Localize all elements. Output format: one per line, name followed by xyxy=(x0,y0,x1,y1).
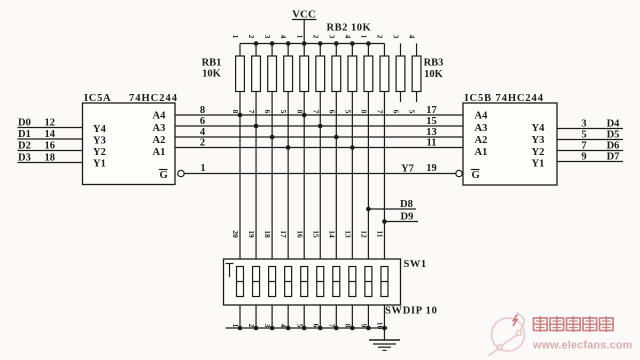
svg-text:1: 1 xyxy=(295,35,304,39)
node junction col3 row3 xyxy=(270,135,275,140)
svg-text:16: 16 xyxy=(295,230,304,238)
svg-text:3: 3 xyxy=(392,35,401,39)
pin labels Y4 Y3 Y2 Y1 (IC5B) xyxy=(532,123,546,170)
svg-text:18: 18 xyxy=(45,153,56,164)
svg-text:7: 7 xyxy=(311,110,320,114)
resistor RB2 element 3 (pin 3/6) xyxy=(327,35,340,114)
svg-text:17: 17 xyxy=(279,230,288,238)
svg-text:12: 12 xyxy=(45,118,56,129)
pin labels A4 A3 A2 A1 (IC5A) xyxy=(153,111,167,159)
node junction col4 row4 xyxy=(286,145,291,150)
svg-text:www.elecfans.com: www.elecfans.com xyxy=(532,340,632,352)
node top bus junction col2 xyxy=(254,41,259,46)
svg-text:7: 7 xyxy=(376,110,385,114)
wire column 1 vertical xyxy=(239,92,241,329)
svg-text:RB1: RB1 xyxy=(202,58,222,69)
ground xyxy=(369,340,400,350)
resistor RB2 element 2 (pin 2/7) xyxy=(311,35,324,114)
svg-text:17: 17 xyxy=(426,105,437,116)
svg-text:D6: D6 xyxy=(607,141,620,152)
label IC5B 74HC244 xyxy=(465,93,544,104)
node top bus junction col9 xyxy=(366,41,371,46)
node bottom bus junction col4 xyxy=(286,326,291,331)
svg-text:SW1: SW1 xyxy=(404,259,427,270)
wire column 2 vertical xyxy=(255,92,257,329)
svg-text:1: 1 xyxy=(200,163,205,174)
svg-text:4: 4 xyxy=(279,35,288,39)
svg-text:A4: A4 xyxy=(153,111,167,122)
wire column 9 vertical xyxy=(367,92,369,329)
switch SW1 element 10 xyxy=(381,267,388,297)
wire VCC top bus xyxy=(240,43,384,45)
svg-text:18: 18 xyxy=(263,230,272,238)
wire enable net (pin 1 to Y7 pin 19) xyxy=(184,163,456,175)
enable pin G-bar (IC5A) xyxy=(159,170,168,182)
wire column 7 vertical xyxy=(335,92,337,329)
svg-text:15: 15 xyxy=(311,230,320,238)
svg-text:IC5A: IC5A xyxy=(84,93,111,104)
node junction col5 row1 xyxy=(302,113,307,118)
svg-text:RB2 10K: RB2 10K xyxy=(327,23,372,34)
node bottom bus junction col2 xyxy=(254,326,259,331)
svg-text:4: 4 xyxy=(408,35,417,39)
resistor RB2 element 1 (pin 1/8) xyxy=(295,35,308,114)
wire IC5B pin 9 to D7 xyxy=(557,152,623,163)
switch SW1 element 5 xyxy=(301,267,308,297)
svg-text:A2: A2 xyxy=(153,135,166,146)
svg-text:2: 2 xyxy=(247,35,256,39)
resistor RB3 element 2 (pin 2/7) xyxy=(376,35,389,114)
resistor RB1 element 4 (pin 4/5) xyxy=(279,35,292,114)
wire D9 tap xyxy=(382,212,418,224)
svg-text:5: 5 xyxy=(408,110,417,114)
svg-text:A2: A2 xyxy=(475,135,488,146)
svg-text:G: G xyxy=(160,170,168,181)
svg-text:8: 8 xyxy=(295,110,304,114)
wire column 4 vertical xyxy=(287,92,289,329)
svg-text:6: 6 xyxy=(200,116,205,127)
svg-text:A4: A4 xyxy=(475,111,489,122)
svg-text:IC5B 74HC244: IC5B 74HC244 xyxy=(465,93,544,104)
wire IC5B pin 3 to D4 xyxy=(557,119,623,130)
switch SW1 element 4 xyxy=(285,267,292,297)
resistor RB1 element 3 (pin 3/6) xyxy=(263,35,276,114)
wire IC5B pin 5 to D5 xyxy=(557,130,623,141)
svg-text:10K: 10K xyxy=(424,69,444,80)
pin labels A4 A3 A2 A1 (IC5B) xyxy=(475,111,489,159)
node junction col1 row1 xyxy=(238,113,243,118)
svg-text:7: 7 xyxy=(581,141,586,152)
switch SW1 element 1 xyxy=(237,267,244,297)
svg-text:Y4: Y4 xyxy=(532,123,546,134)
svg-text:8: 8 xyxy=(231,110,240,114)
switch SW1 body xyxy=(224,259,401,305)
node bottom bus junction col3 xyxy=(270,326,275,331)
svg-text:Y2: Y2 xyxy=(532,147,545,158)
svg-text:4: 4 xyxy=(343,35,352,39)
svg-text:5: 5 xyxy=(279,110,288,114)
svg-text:11: 11 xyxy=(376,230,385,237)
node junction col7 row3 xyxy=(334,135,339,140)
svg-text:Y1: Y1 xyxy=(532,159,545,170)
resistor RB3 element 4 (pin 4/5) xyxy=(408,35,421,114)
switch SW1 position marker xyxy=(226,264,234,278)
node bottom bus junction col5 xyxy=(302,326,307,331)
svg-text:D8: D8 xyxy=(400,199,413,210)
svg-text:6: 6 xyxy=(263,110,272,114)
svg-text:2: 2 xyxy=(376,35,385,39)
label RB2 value xyxy=(327,23,372,34)
svg-text:D3: D3 xyxy=(18,153,31,164)
label IC5A 74HC244 xyxy=(84,93,178,104)
svg-text:G: G xyxy=(472,170,480,181)
wire column 6 vertical xyxy=(319,92,321,329)
svg-text:5: 5 xyxy=(581,130,586,141)
svg-text:12: 12 xyxy=(359,230,368,238)
label RB3 value xyxy=(424,58,444,81)
switch SW1 element 3 xyxy=(269,267,276,297)
svg-text:D4: D4 xyxy=(607,119,621,130)
svg-text:Y4: Y4 xyxy=(93,124,107,135)
svg-text:19: 19 xyxy=(426,163,437,174)
svg-text:6: 6 xyxy=(327,110,336,114)
wire column 3 vertical xyxy=(271,92,273,329)
svg-text:13: 13 xyxy=(426,127,437,138)
svg-text:3: 3 xyxy=(327,35,336,39)
svg-text:9: 9 xyxy=(581,152,586,163)
node junction col2 row2 xyxy=(254,124,259,129)
wire D8 tap xyxy=(366,199,416,211)
svg-text:16: 16 xyxy=(45,141,56,152)
svg-text:8: 8 xyxy=(359,110,368,114)
svg-text:D5: D5 xyxy=(607,130,620,141)
wire column 8 vertical xyxy=(351,92,353,329)
svg-text:7: 7 xyxy=(247,110,256,114)
label SWDIP 10 xyxy=(385,306,438,317)
svg-text:A3: A3 xyxy=(153,123,166,134)
IC IC5A 74HC244 buffer body xyxy=(83,103,176,185)
pin labels 20-11 (SW1 top) xyxy=(231,230,384,238)
IC IC5B 74HC244 buffer body xyxy=(463,103,557,185)
svg-text:14: 14 xyxy=(45,129,56,140)
svg-text:3: 3 xyxy=(581,119,586,130)
inverter bubble G (IC5B) xyxy=(456,170,462,176)
wire IC5B pin 7 to D6 xyxy=(557,141,623,152)
svg-text:A1: A1 xyxy=(475,147,488,158)
svg-text:Y3: Y3 xyxy=(532,135,545,146)
node bottom bus junction col6 xyxy=(318,326,323,331)
node bottom bus junction col10 xyxy=(382,326,387,331)
resistor RB1 element 2 (pin 2/7) xyxy=(247,35,260,114)
svg-text:8: 8 xyxy=(200,105,205,116)
svg-text:D9: D9 xyxy=(401,212,414,223)
switch SW1 element 7 xyxy=(333,267,340,297)
svg-text:10K: 10K xyxy=(202,69,222,80)
inverter bubble G (IC5A) xyxy=(178,170,184,176)
node top bus junction col8 xyxy=(350,41,355,46)
svg-text:VCC: VCC xyxy=(292,9,316,21)
svg-text:15: 15 xyxy=(426,116,437,127)
wire net row 4 (IC5A pin 2 to IC5B pin 11) xyxy=(175,138,463,149)
enable pin G-bar (IC5B) xyxy=(471,170,480,182)
svg-text:6: 6 xyxy=(392,110,401,114)
svg-text:D1: D1 xyxy=(18,129,31,140)
wire D2 to IC5A pin 16 xyxy=(18,141,83,152)
switch SW1 element 8 xyxy=(349,267,356,297)
svg-text:Y2: Y2 xyxy=(93,147,106,158)
svg-text:SWDIP 10: SWDIP 10 xyxy=(385,306,438,317)
node bottom bus junction col8 xyxy=(350,326,355,331)
svg-text:A1: A1 xyxy=(153,147,166,158)
node bottom bus junction col1 xyxy=(238,326,243,331)
svg-text:Y7: Y7 xyxy=(401,164,414,175)
resistor RB2 element 4 (pin 4/5) xyxy=(343,35,356,114)
wire net row 1 (IC5A pin 8 to IC5B pin 17) xyxy=(175,105,463,116)
svg-text:19: 19 xyxy=(247,230,256,238)
node top bus junction col7 xyxy=(334,41,339,46)
switch SW1 element 6 xyxy=(317,267,324,297)
node top bus junction col6 xyxy=(318,41,323,46)
node junction col8 row4 xyxy=(350,145,355,150)
svg-text:2: 2 xyxy=(200,138,205,149)
svg-text:Y3: Y3 xyxy=(93,136,106,147)
svg-text:D7: D7 xyxy=(607,152,620,163)
node top bus junction col5 xyxy=(302,41,307,46)
pin labels 1-10 (SW1 bottom) xyxy=(231,322,384,330)
wire net row 2 (IC5A pin 6 to IC5B pin 15) xyxy=(175,116,463,127)
wire column 5 vertical xyxy=(303,92,305,329)
switch SW1 element 9 xyxy=(365,267,372,297)
wire bottom bus xyxy=(226,327,388,329)
wire column 10 vertical xyxy=(383,92,385,329)
wire D3 to IC5A pin 18 xyxy=(18,153,83,164)
svg-text:74HC244: 74HC244 xyxy=(129,93,178,104)
wire D1 to IC5A pin 14 xyxy=(18,129,83,140)
svg-text:Y1: Y1 xyxy=(93,159,106,170)
label RB1 value xyxy=(202,58,222,80)
svg-text:2: 2 xyxy=(311,35,320,39)
node top bus junction col4 xyxy=(286,41,291,46)
node bottom bus junction col9 xyxy=(366,326,371,331)
node bottom bus junction col7 xyxy=(334,326,339,331)
svg-text:13: 13 xyxy=(343,230,352,238)
resistor RB3 element 1 (pin 1/8) xyxy=(359,35,372,114)
watermark logo circle xyxy=(489,312,525,356)
pin labels Y4 Y3 Y2 Y1 (IC5A) xyxy=(93,124,107,170)
switch SW1 element 2 xyxy=(253,267,260,297)
label SW1 xyxy=(404,259,427,270)
svg-text:11: 11 xyxy=(427,138,437,149)
svg-text:1: 1 xyxy=(359,35,368,39)
wire net row 3 (IC5A pin 4 to IC5B pin 13) xyxy=(175,127,463,138)
watermark text dianzifashaoyou xyxy=(534,316,614,332)
power symbol VCC xyxy=(292,9,317,44)
resistor RB1 element 1 (pin 1/8) xyxy=(231,35,244,114)
node junction col6 row2 xyxy=(318,124,323,129)
svg-text:D2: D2 xyxy=(18,141,31,152)
svg-text:20: 20 xyxy=(231,230,240,238)
svg-text:14: 14 xyxy=(327,230,336,238)
wire ground stem xyxy=(383,328,385,340)
wire D0 to IC5A pin 12 xyxy=(18,118,83,129)
svg-text:RB3: RB3 xyxy=(424,58,444,69)
svg-text:5: 5 xyxy=(343,110,352,114)
svg-text:4: 4 xyxy=(200,127,206,138)
resistor RB3 element 3 (pin 3/6) xyxy=(392,35,405,114)
watermark text www.elecfans.com xyxy=(532,340,632,352)
svg-text:D0: D0 xyxy=(18,118,31,129)
svg-text:3: 3 xyxy=(263,35,272,39)
node top bus junction col3 xyxy=(270,41,275,46)
svg-text:1: 1 xyxy=(231,35,240,39)
svg-text:A3: A3 xyxy=(475,123,488,134)
